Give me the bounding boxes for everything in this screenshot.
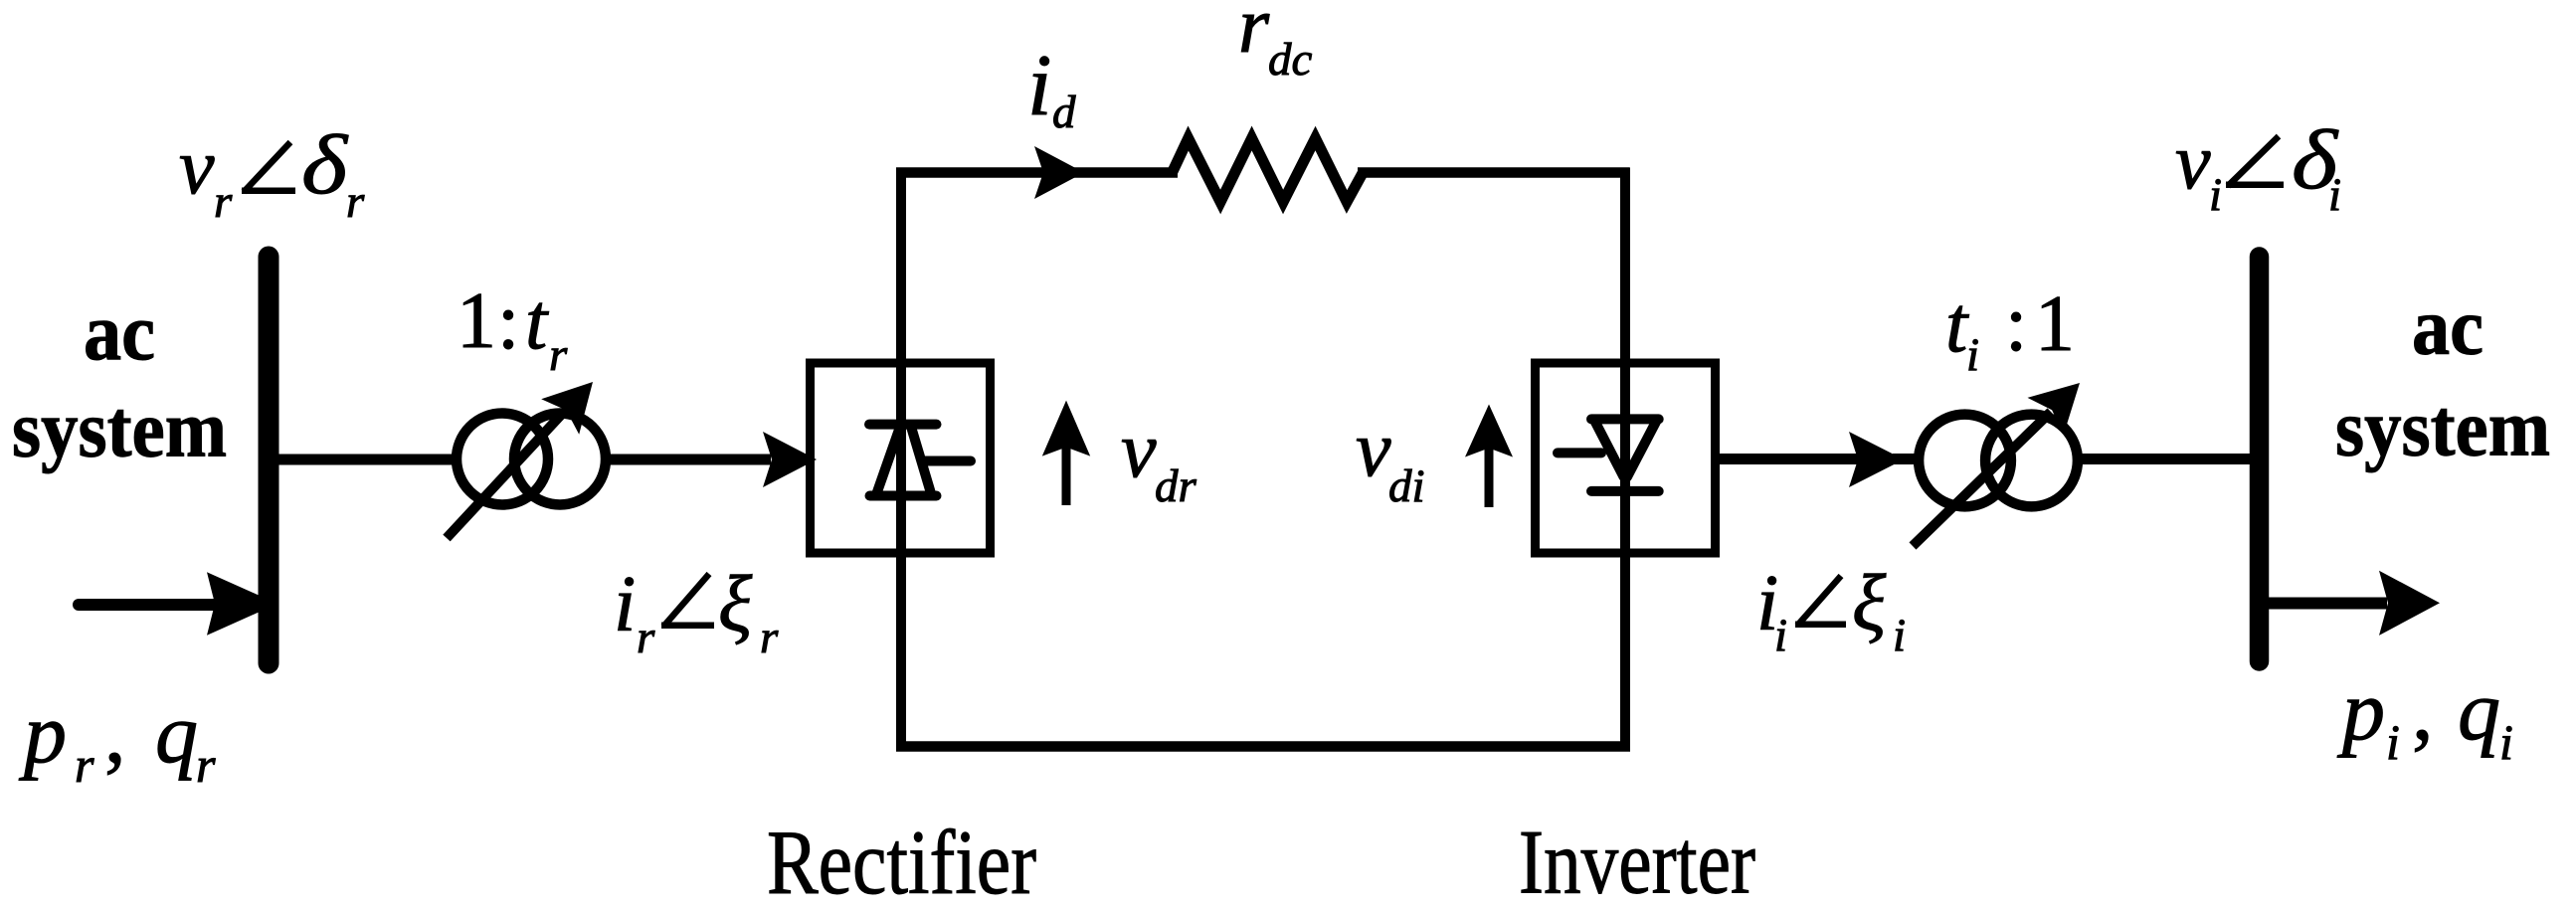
svg-text:i: i [614, 561, 636, 648]
svg-text:ac: ac [2412, 281, 2484, 372]
wire: top dc wire left segment with i_d arrow [896, 146, 1178, 199]
svg-text:,: , [2412, 662, 2434, 758]
svg-text:i: i [1966, 329, 1979, 381]
label: p_r , q_r [18, 685, 216, 793]
svg-text:r: r [637, 612, 655, 663]
transformer 1:t_r (two overlapping circles with tap arrow) [447, 382, 606, 538]
label: v_r angle delta_r [179, 118, 365, 228]
svg-text:,: , [104, 685, 126, 781]
label: v_di [1356, 406, 1425, 512]
svg-text:r: r [214, 176, 233, 228]
svg-text:ac: ac [84, 286, 155, 377]
svg-text:1: 1 [2035, 280, 2075, 368]
svg-text::: : [2005, 280, 2027, 368]
svg-text:i: i [2499, 714, 2513, 770]
thyristor symbol inside rectifier (pointing up) [869, 425, 971, 496]
svg-text:i: i [2209, 169, 2222, 221]
wire: arrow out of right bus (p_i,q_i) [2269, 571, 2440, 636]
svg-text:ξ: ξ [718, 561, 753, 648]
svg-text:i: i [2328, 169, 2341, 221]
svg-text:ξ: ξ [1852, 560, 1887, 647]
label: i_d [1027, 38, 1076, 138]
wire: bottom dc return wire [896, 741, 1630, 752]
wire: inverter to transformer t_i with arrow i_i [1719, 432, 1920, 487]
label: ac system (right) [2335, 281, 2550, 473]
svg-text:q: q [2458, 662, 2500, 758]
svg-text:r: r [346, 176, 365, 228]
svg-text:i: i [1774, 610, 1787, 661]
svg-text:p: p [2336, 662, 2385, 758]
svg-text:r: r [549, 329, 568, 381]
svg-text:1: 1 [457, 277, 496, 365]
svg-text:i: i [2386, 714, 2400, 770]
svg-text:v: v [2175, 118, 2211, 206]
svg-text:v: v [179, 123, 215, 211]
svg-text:r: r [196, 737, 216, 793]
wire: inverter dc-side vertical (right leg of dc loop) [1620, 168, 1630, 752]
node: left ac bus v_r [259, 257, 279, 663]
label: i_r angle xi_r [614, 561, 779, 663]
svg-text:i: i [1027, 38, 1051, 134]
svg-text:dc: dc [1268, 34, 1313, 86]
svg-text:Rectifier: Rectifier [767, 812, 1036, 913]
svg-text:system: system [2335, 383, 2550, 473]
wire: transformer to rectifier with arrow i_r [606, 432, 817, 487]
svg-text:r: r [75, 737, 94, 793]
svg-text:r: r [760, 612, 779, 663]
wire: arrow into left bus (p_r,q_r injection) [79, 572, 277, 636]
wire: transformer to right bus [2078, 454, 2260, 464]
label: i_i angle xi_i [1756, 560, 1906, 661]
svg-text:p: p [18, 685, 67, 781]
svg-text:d: d [1052, 87, 1076, 138]
svg-text:v: v [1356, 406, 1391, 493]
labels: Rectifier / Inverter captions [767, 812, 1755, 913]
thyristor symbol inside inverter (pointing down) [1558, 419, 1659, 491]
svg-text:δ: δ [301, 118, 349, 212]
label: v_i angle delta_i [2175, 113, 2341, 221]
svg-text:q: q [155, 685, 198, 781]
label: ac system (left) [12, 286, 227, 474]
label: 1 : t_r [457, 277, 568, 381]
arrow: v_dr voltage arrow (up) [1042, 401, 1090, 505]
converter box U2 inverter [1536, 363, 1716, 553]
svg-text:r: r [1238, 0, 1270, 70]
transformer t_i:1 (two overlapping circles with tap arrow) [1913, 383, 2080, 546]
label: p_i , q_i [2336, 662, 2513, 770]
svg-text:dr: dr [1155, 460, 1197, 512]
label: r_dc [1238, 0, 1313, 86]
label: v_dr [1121, 407, 1197, 512]
converter box U1 rectifier [811, 363, 991, 553]
label: t_i : 1 [1945, 280, 2075, 381]
wire: top dc wire right segment [1358, 167, 1630, 178]
wire: left bus to transformer 1:t_r [269, 455, 458, 465]
svg-text:Inverter: Inverter [1519, 812, 1755, 913]
svg-text:di: di [1388, 460, 1425, 512]
svg-text:v: v [1121, 407, 1157, 494]
wire: rectifier dc-side vertical (left leg of dc loop) [896, 168, 906, 752]
svg-text:system: system [12, 384, 227, 474]
node: right ac bus v_i [2250, 257, 2270, 661]
svg-text:i: i [1893, 610, 1906, 661]
arrow: v_di voltage arrow (up) [1465, 405, 1513, 508]
svg-text::: : [497, 278, 519, 366]
resistor r_dc [1173, 138, 1364, 202]
svg-text:t: t [525, 278, 549, 366]
